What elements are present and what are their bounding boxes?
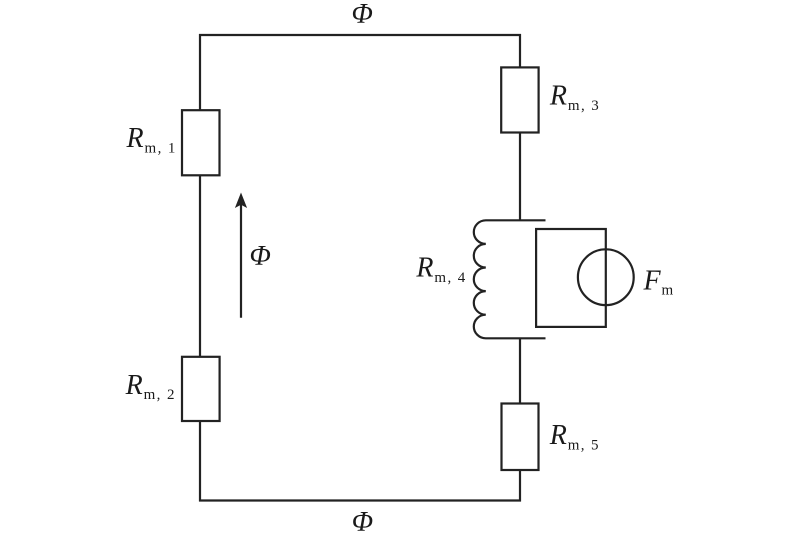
label R_m,3 <box>549 81 600 114</box>
winding box of source F_m <box>536 229 606 327</box>
svg-text:R: R <box>125 370 143 401</box>
resistor R_m,1 <box>182 110 220 175</box>
svg-text:m, 5: m, 5 <box>568 437 600 453</box>
svg-text:m, 2: m, 2 <box>144 387 176 403</box>
svg-text:R: R <box>549 81 567 112</box>
svg-text:Φ: Φ <box>352 507 373 538</box>
resistor R_m,2 <box>182 357 220 421</box>
svg-text:R: R <box>549 420 567 451</box>
svg-text:F: F <box>643 266 662 297</box>
svg-text:R: R <box>126 123 144 154</box>
source circle F_m <box>578 249 634 305</box>
wire: left vertical, top segment <box>199 34 201 111</box>
wire: right vertical, lower-middle segment <box>519 338 521 404</box>
svg-text:m, 3: m, 3 <box>568 98 600 114</box>
svg-text:Φ: Φ <box>250 241 271 272</box>
wire: top horizontal (flux path) <box>199 34 521 36</box>
wire: bottom horizontal (flux path) <box>199 499 521 501</box>
wire: right vertical, upper-middle segment <box>519 133 521 222</box>
svg-text:m: m <box>662 283 674 299</box>
label R_m,1 <box>126 123 177 156</box>
wire: left vertical, middle segment <box>199 175 201 356</box>
resistor R_m,5 <box>502 404 539 471</box>
wire: left vertical, bottom segment <box>199 421 201 502</box>
svg-text:m, 4: m, 4 <box>434 270 466 286</box>
label R_m,4 <box>415 253 466 286</box>
label R_m,5 <box>549 420 600 453</box>
wire: right vertical, top segment <box>519 34 521 68</box>
label F_m <box>643 266 674 299</box>
flux arrow (direction of Phi) <box>235 193 247 318</box>
wire: right vertical, bottom segment <box>519 470 521 502</box>
svg-text:Φ: Φ <box>352 0 373 30</box>
reluctance coil R_m,4 <box>474 220 546 338</box>
label R_m,2 <box>125 370 176 403</box>
svg-text:R: R <box>415 253 433 284</box>
resistor R_m,3 <box>501 67 538 132</box>
svg-text:m, 1: m, 1 <box>145 140 177 156</box>
